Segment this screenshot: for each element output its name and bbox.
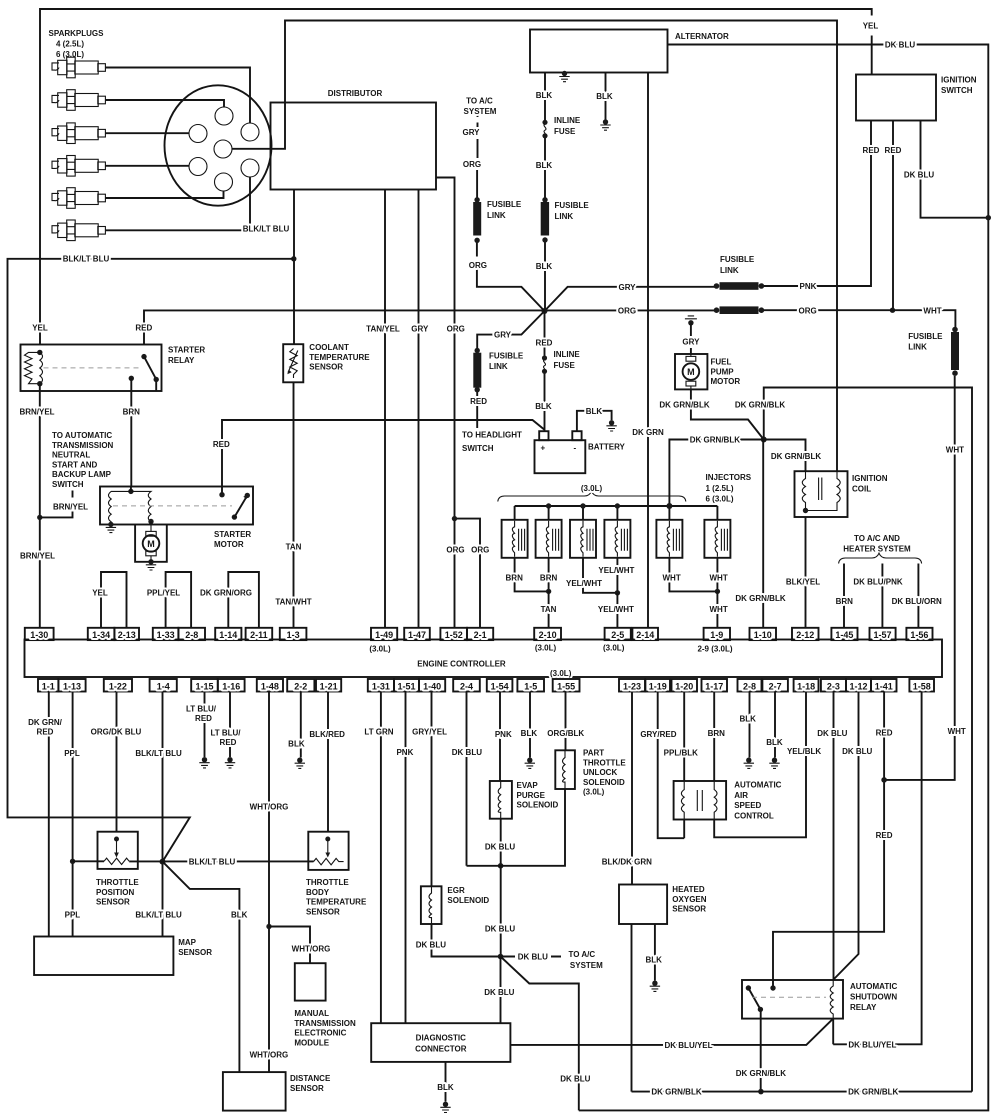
wire DK BLU diagnostic loop [501,957,579,1111]
pin 2-11 (top) [246,628,273,640]
svg-text:2-10: 2-10 [539,630,557,640]
svg-text:FUSE: FUSE [554,127,576,136]
svg-text:SOLENOID: SOLENOID [517,801,559,810]
pin 1-17 (bottom) [702,679,728,692]
fusible link FL2 (GRY/PNK) [714,283,720,289]
wire ORG A/C branch (NW diagonal) [477,242,545,311]
node coil common [803,508,808,513]
wire plug1 to cap [105,68,250,124]
svg-text:ORG: ORG [798,306,816,315]
relay K1 coil [37,350,42,355]
jumper YEL pins 1-34/2-13 [101,572,127,628]
svg-text:DK GRN/BLK: DK GRN/BLK [651,1088,701,1097]
svg-text:BLK/LT BLU: BLK/LT BLU [63,255,110,264]
motor M circle [150,525,152,562]
pin 1-23 (bottom) [619,679,645,692]
pin 1-48 (bottom) [257,679,283,692]
wire BLK alternator ground stub [605,73,607,120]
wire DK BLU/YEL pin 1-58 to relay coil [833,692,921,1045]
svg-text:BLK/LT BLU: BLK/LT BLU [243,225,290,234]
pin 2-5 (top) [605,628,631,640]
wire DK BLU pin 2-3 to relay coil [833,692,835,981]
svg-text:DK BLU: DK BLU [518,953,548,962]
engine controller U1 box [25,640,943,678]
wire YEL/WHT injector 3 [583,558,617,593]
svg-text:BRN: BRN [123,408,141,417]
svg-text:(3.0L): (3.0L) [583,788,605,797]
wire GRY headlight branch (SW diagonal) [477,311,544,348]
svg-text:BLK/LT BLU: BLK/LT BLU [135,911,182,920]
svg-text:ORG: ORG [463,160,481,169]
svg-text:1-41: 1-41 [875,681,893,691]
wire ORG/DK BLU pin 1-22 to TPS [116,692,118,832]
wire DK BLU/ORN to pin 1-56 [917,564,919,628]
svg-text:2-4: 2-4 [460,681,473,691]
svg-text:2-14: 2-14 [636,630,654,640]
svg-text:RED: RED [135,324,152,333]
svg-text:ALTERNATOR: ALTERNATOR [675,32,729,41]
svg-text:1-17: 1-17 [705,681,723,691]
ground (pin 2-2) [295,758,305,769]
wire WHT injector 5 [669,558,717,592]
starter motor switch arm [232,514,237,519]
pin 2-10 (top) [534,628,561,640]
node DK GRN/BLK rail junction [758,1089,764,1095]
wire RED pin 1-41 to relay contact [773,692,884,989]
wire DK BLU pin 2-4 [466,692,468,866]
svg-text:RED: RED [37,728,54,737]
battery B1 [535,440,586,473]
ground (diagnostic) [440,1102,450,1113]
inline fuse F1 [542,120,547,125]
svg-text:PPL/YEL: PPL/YEL [147,589,180,598]
svg-text:FUEL: FUEL [711,358,732,367]
svg-text:GRY: GRY [462,128,480,137]
wire BLK/LT BLU left rail [8,259,294,862]
sparkplug 2 [52,90,105,111]
svg-text:ORG/DK BLU: ORG/DK BLU [91,728,142,737]
svg-text:GRY/RED: GRY/RED [640,730,676,739]
svg-text:HEATER SYSTEM: HEATER SYSTEM [843,544,911,553]
svg-text:WHT/ORG: WHT/ORG [292,945,331,954]
svg-text:RED: RED [195,714,212,723]
svg-text:FUSIBLE: FUSIBLE [720,255,755,264]
pin 1-5 (bottom) [517,679,544,692]
wire BLK/LT BLU TPS to TBTS [129,860,313,862]
svg-text:1-10: 1-10 [754,630,772,640]
ground (pin 1-5) [525,758,535,769]
starter relay K1 box [21,345,162,392]
wire ORG/BLK pin 1-55 to part throttle solenoid [565,692,567,751]
svg-text:RED: RED [885,146,902,155]
svg-text:DISTANCE: DISTANCE [290,1074,331,1083]
wire DK BLU ignition to right rail [921,121,989,218]
svg-text:DK BLU: DK BLU [560,1074,590,1083]
pin 1-55 (bottom) [553,679,580,692]
sparkplug 3 [52,123,105,144]
starter motor M1 box [100,487,253,525]
svg-text:DK BLU: DK BLU [485,843,515,852]
pin 2-13 (top) [114,628,139,640]
svg-text:BLK/LT BLU: BLK/LT BLU [135,749,182,758]
ground (oxygen sensor) [650,981,660,992]
injector INJ6 [704,520,730,558]
pin 1-12 (bottom) [846,679,871,692]
svg-text:DK GRN/BLK: DK GRN/BLK [736,1069,786,1078]
svg-text:BODY: BODY [306,888,330,897]
air speed control left coil [681,781,684,820]
svg-text:4 (2.5L): 4 (2.5L) [56,40,84,49]
svg-text:NEUTRAL: NEUTRAL [52,451,90,460]
sparkplug 6 [52,220,105,241]
svg-text:SENSOR: SENSOR [96,898,130,907]
svg-text:LINK: LINK [720,266,739,275]
diagnostic connector box [371,1023,510,1062]
wire GRY fuel pump [690,323,692,354]
svg-text:SENSOR: SENSOR [309,363,343,372]
ground (pin 1-16) [225,757,235,768]
wire TAN/YEL to pin 1-49 [384,190,386,628]
svg-text:1-3: 1-3 [287,630,300,640]
svg-text:1-48: 1-48 [261,681,279,691]
svg-text:BLK: BLK [586,407,603,416]
svg-text:DISTRIBUTOR: DISTRIBUTOR [328,89,383,98]
svg-text:SOLENOID: SOLENOID [447,896,489,905]
pin 2-8 (bottom) [738,679,762,692]
svg-text:1-20: 1-20 [675,681,693,691]
svg-text:2-9 (3.0L): 2-9 (3.0L) [697,645,732,654]
svg-text:FUSIBLE: FUSIBLE [908,332,943,341]
svg-text:DK BLU/YEL: DK BLU/YEL [848,1040,896,1049]
svg-text:BLK: BLK [536,161,553,170]
pin 2-14 (top) [632,628,658,640]
svg-text:DK GRN/BLK: DK GRN/BLK [771,452,821,461]
svg-text:DK BLU: DK BLU [485,924,515,933]
svg-text:2-12: 2-12 [796,630,814,640]
svg-text:1-40: 1-40 [423,681,441,691]
svg-text:DK BLU/PNK: DK BLU/PNK [853,578,903,587]
svg-text:1-57: 1-57 [873,630,891,640]
TPS resistor [104,858,129,864]
pin 1-34 (top) [88,628,115,640]
svg-text:ORG/BLK: ORG/BLK [547,729,584,738]
injector INJ5 [656,520,682,558]
svg-text:TRANSMISSION: TRANSMISSION [294,1019,356,1028]
pin 1-15 (bottom) [191,679,218,692]
starter motor armature bracket [135,525,167,562]
ignition coil T1 box [795,471,848,517]
svg-text:BLK: BLK [231,911,248,920]
cap terminal lower-left [189,158,207,176]
svg-text:(3.0L): (3.0L) [581,484,603,493]
manual transmission electronic module box [295,963,326,1000]
svg-text:WHT/ORG: WHT/ORG [250,803,289,812]
svg-text:TO AUTOMATIC: TO AUTOMATIC [52,431,112,440]
svg-text:BRN: BRN [506,573,524,582]
svg-text:1-49: 1-49 [375,630,393,640]
injector INJ4 [604,520,630,558]
wire DK GRN alternator to pin 2-14 [647,73,649,628]
svg-text:DK BLU: DK BLU [885,41,915,50]
svg-text:RED: RED [876,831,893,840]
wire plug4 to cap [105,165,189,167]
cap terminal bottom [215,173,233,191]
svg-text:M: M [687,367,695,377]
wire GRY diagonal to fusible link [545,287,717,311]
MAP sensor box [34,937,173,976]
starter motor contact [219,492,224,497]
part throttle unlock solenoid L3 box [555,750,575,789]
svg-text:1-21: 1-21 [320,681,338,691]
svg-text:YEL: YEL [863,22,879,31]
pin 1-16 (bottom) [218,679,245,692]
wire plug5 to cap [105,191,223,198]
wire RED/BLK battery feed below X [544,311,546,432]
svg-text:ORG: ORG [469,261,487,270]
wire dashes to A/C [477,113,479,128]
wire BRN injector 2 [548,558,550,592]
svg-text:STARTER: STARTER [168,346,205,355]
pin 1-56 (top) [906,628,932,640]
pin 2-8 (top) [178,628,205,640]
sparkplug 5 [52,188,105,209]
svg-text:1-45: 1-45 [835,630,853,640]
wire stub to switch label [72,491,74,498]
svg-text:1-54: 1-54 [491,681,509,691]
pin 2-1 (top) [467,628,493,640]
pin 1-52 (top) [440,628,467,640]
svg-text:1-5: 1-5 [524,681,537,691]
svg-text:BLK/YEL: BLK/YEL [786,578,820,587]
heated oxygen sensor box [619,885,667,925]
svg-text:1-12: 1-12 [849,681,867,691]
svg-text:PNK: PNK [495,730,512,739]
wire DK GRN/BLK to injector rail [669,440,763,506]
wire BLK alternator to junction [544,73,546,309]
wire DK BLU/PNK to pin 1-57 [881,564,883,628]
svg-text:1-1: 1-1 [42,681,55,691]
svg-text:UNLOCK: UNLOCK [583,768,617,777]
injector rail [515,505,718,507]
svg-text:LINK: LINK [555,212,574,221]
wire WHT right side [884,376,955,780]
svg-text:BLK: BLK [739,715,756,724]
svg-text:LINK: LINK [489,362,508,371]
svg-text:2-13: 2-13 [118,630,136,640]
wire DK BLU EGR to junction [432,924,501,957]
ground (alternator case) [559,71,569,82]
node WHT join [715,589,720,594]
svg-text:YEL: YEL [32,324,48,333]
coolant sensor thermistor [290,349,297,379]
wire BRN pin 1-17 [713,692,715,782]
node RED/ORG junction [890,308,895,313]
wire relay coil bottom to DK BLU/YEL [832,1019,834,1045]
pin 1-22 (bottom) [104,679,132,692]
svg-text:TO HEADLIGHT: TO HEADLIGHT [462,431,522,440]
wire RED ignition to PNK link [761,121,871,287]
svg-text:SWITCH: SWITCH [462,444,494,453]
pin 2-12 (top) [792,628,819,640]
svg-text:1-4: 1-4 [157,681,170,691]
svg-text:2-3: 2-3 [827,681,840,691]
cap terminal top [215,107,233,125]
svg-text:DK BLU: DK BLU [817,729,847,738]
svg-text:THROTTLE: THROTTLE [306,878,349,887]
svg-text:BLK: BLK [437,1083,454,1092]
ignition coil primary [802,471,805,510]
pin 1-41 (bottom) [871,679,897,692]
cap terminal lower-right [241,159,259,177]
svg-text:WHT/ORG: WHT/ORG [250,1051,289,1060]
wire TAN to pin 2-10 [548,591,550,627]
wire DK BLU alternator to ignition switch loop [579,45,989,1111]
svg-text:BRN/YEL: BRN/YEL [19,408,54,417]
svg-text:SENSOR: SENSOR [306,907,340,916]
svg-text:DK BLU: DK BLU [452,748,482,757]
node BLK/LT BLU junction [291,256,296,261]
injector INJ3 [570,520,596,558]
pin 1-9 (top) [704,628,730,640]
wire ORG distributor to pins 1-52/2-1 [436,178,480,628]
relay K1 switch contacts [141,354,146,359]
pin 1-40 (bottom) [419,679,445,692]
air speed control right coil [714,781,717,820]
svg-text:YEL/WHT: YEL/WHT [566,579,602,588]
svg-text:YEL/WHT: YEL/WHT [598,566,634,575]
wire BLK battery negative to ground [577,411,612,431]
svg-text:2-8: 2-8 [743,681,756,691]
svg-text:PNK: PNK [800,282,817,291]
svg-text:GRY: GRY [682,338,700,347]
svg-text:FUSIBLE: FUSIBLE [555,201,590,210]
wire LT GRN pin 1-31 to diagnostic connector [380,692,382,1024]
wire DK GRN/BLK relay to rail [760,1009,762,1091]
svg-text:1 (2.5L): 1 (2.5L) [706,484,734,493]
wire GRY/RED pin 1-19 [658,692,685,839]
svg-text:AIR: AIR [734,791,748,800]
svg-text:RELAY: RELAY [850,1003,877,1012]
svg-text:TEMPERATURE: TEMPERATURE [309,353,370,362]
svg-text:TAN: TAN [286,543,302,552]
pin 1-30 (top) [25,628,54,640]
svg-text:ORG: ORG [471,545,489,554]
svg-text:MOTOR: MOTOR [711,377,741,386]
wire plug2 to cap [105,100,224,107]
pin 1-33 (top) [153,628,179,640]
svg-text:DK BLU/YEL: DK BLU/YEL [665,1041,713,1050]
fusible link FL5 (headlight) [475,348,480,353]
ignition coil secondary [808,471,841,510]
svg-text:ORG: ORG [447,324,465,333]
wire BLK pin 1-5 to ground [529,692,531,758]
svg-text:MANUAL: MANUAL [294,1009,329,1018]
injector INJ1 [502,520,528,558]
pin 1-4 (bottom) [150,679,177,692]
svg-text:BLK: BLK [536,91,553,100]
svg-text:ORG: ORG [618,306,636,315]
wire YEL top loop [40,9,872,345]
node ORG branch [452,516,457,521]
air speed control core bars [697,790,702,811]
wire DK BLU EVAP drop [500,819,502,957]
wire DK GRN/BLK oxygen sensor to rail [631,924,633,1092]
node X junction [542,308,548,314]
svg-text:DIAGNOSTIC: DIAGNOSTIC [416,1034,466,1043]
svg-text:ORG: ORG [446,545,464,554]
svg-text:LINK: LINK [487,211,506,220]
wire ORG above link to GRY stub [476,139,478,198]
svg-text:1-52: 1-52 [445,630,463,640]
svg-text:SPARKPLUGS: SPARKPLUGS [49,29,105,38]
wire PPL pin 1-13 to MAP sensor [72,692,74,937]
node BRN join [546,589,551,594]
starter motor field coil 2 [131,491,151,521]
ground (pin 2-8) [744,758,754,769]
svg-text:PART: PART [583,749,604,758]
svg-text:YEL/WHT: YEL/WHT [598,605,634,614]
svg-text:TO A/C: TO A/C [466,97,493,106]
svg-text:START AND: START AND [52,460,98,469]
svg-text:FUSIBLE: FUSIBLE [489,352,524,361]
svg-text:MOTOR: MOTOR [214,540,244,549]
svg-text:BLK: BLK [288,740,305,749]
wire BRN jumper into motor coils [131,487,151,525]
svg-text:M: M [147,539,155,549]
svg-text:LT BLU/: LT BLU/ [186,705,217,714]
EVAP purge solenoid L2 box [490,781,512,819]
svg-text:1-47: 1-47 [408,630,426,640]
pin 1-19 (bottom) [645,679,670,692]
pin 1-49 (top) [371,628,397,640]
svg-text:COIL: COIL [852,485,871,494]
wire BLK/LT BLU pin 1-4 to MAP sensor [162,692,164,937]
svg-text:PPL: PPL [65,911,81,920]
svg-text:FUSE: FUSE [554,361,576,370]
svg-text:2-2: 2-2 [294,681,307,691]
svg-text:INLINE: INLINE [554,116,581,125]
svg-text:TO A/C AND: TO A/C AND [854,534,900,543]
relay K2 dashed line [752,996,826,998]
ignition switch S1 box [856,75,936,121]
wire WHT/ORG pin 1-48 to distance sensor [268,692,270,1073]
svg-text:BLK/RED: BLK/RED [309,730,345,739]
pin 2-7 (bottom) [762,679,788,692]
svg-text:INJECTORS: INJECTORS [706,473,752,482]
svg-text:POSITION: POSITION [96,888,134,897]
wire air speed control left out [683,820,685,839]
svg-text:(3.0L): (3.0L) [603,644,625,653]
node DK BLU solenoid junction [498,863,504,869]
svg-text:DK GRN/BLK: DK GRN/BLK [659,401,709,410]
wire DK BLU EVAP junction down to diagnostic [500,957,502,1024]
svg-text:SENSOR: SENSOR [672,905,706,914]
svg-text:GRY: GRY [618,283,636,292]
pin 1-1 (bottom) [38,679,58,692]
svg-text:IGNITION: IGNITION [852,474,888,483]
svg-text:THROTTLE: THROTTLE [583,758,626,767]
svg-text:DK GRN/BLK: DK GRN/BLK [735,401,785,410]
svg-text:BRN: BRN [708,729,726,738]
node WHT/ORG junction [266,924,271,929]
svg-text:PURGE: PURGE [517,791,546,800]
wire RED to headlight switch [476,392,478,428]
fuel pump motor M2 box [675,354,707,389]
ground (battery) [606,420,616,431]
wire BLK/LT BLU distributor drop [293,190,295,345]
svg-text:1-19: 1-19 [649,681,667,691]
svg-text:SOLENOID: SOLENOID [583,778,625,787]
